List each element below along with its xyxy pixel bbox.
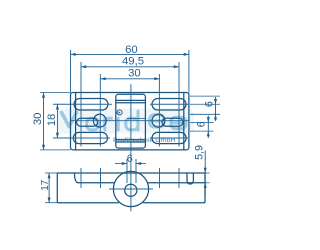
svg-text:30: 30	[32, 113, 44, 126]
svg-text:18: 18	[46, 114, 58, 127]
svg-text:6: 6	[204, 101, 216, 107]
svg-text:30: 30	[128, 67, 141, 79]
svg-text:17: 17	[40, 180, 51, 191]
svg-text:6: 6	[127, 153, 133, 165]
svg-text:60: 60	[125, 44, 138, 56]
svg-text:49,5: 49,5	[122, 56, 144, 68]
svg-text:5,9: 5,9	[193, 145, 205, 160]
svg-text:6: 6	[195, 121, 207, 127]
